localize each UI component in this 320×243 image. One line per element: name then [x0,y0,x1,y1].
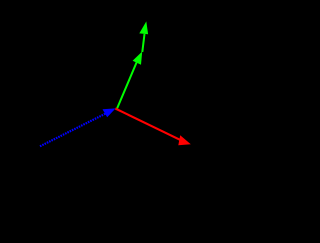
vector v1 (green) arrowhead [133,52,143,65]
vector v2 (green) arrowhead [139,21,148,34]
vector u (red) arrowhead [178,135,191,145]
vector b (blue dotted arrow) shaft [40,114,106,147]
vector b (blue) arrowhead [103,108,116,117]
vector v2 (green arrow, head-to-tail) shaft [142,34,144,52]
vector v1 (green arrow) shaft [117,62,137,108]
vector u (red arrow) shaft [115,109,180,140]
vector diagram [0,0,250,243]
